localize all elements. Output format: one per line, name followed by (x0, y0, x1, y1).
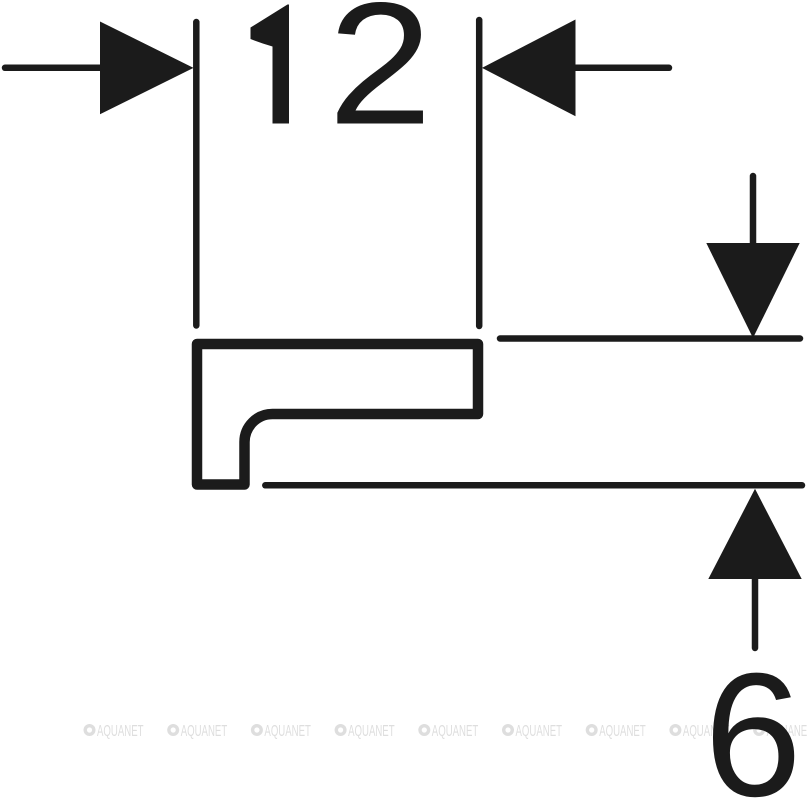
wire right arrow shaft (575, 65, 669, 72)
wire bottom surface line (265, 482, 802, 489)
arrowhead up (708, 489, 801, 579)
profile outline of sill section (197, 344, 478, 485)
wire up arrow shaft (752, 579, 759, 648)
svg-text:AQUANET: AQUANET (97, 723, 144, 740)
svg-text:6: 6 (704, 638, 802, 800)
wire top surface line (500, 335, 800, 342)
arrowhead down (706, 243, 799, 338)
dimension label: digit 1 (drawn, helvetica style) (251, 5, 290, 124)
arrowhead left (points right) (100, 22, 194, 115)
watermark row (84, 723, 807, 740)
wire left arrow shaft (5, 65, 101, 72)
arrowhead right (points left) (482, 20, 576, 117)
wire left extension line (193, 22, 200, 326)
wire down arrow shaft (750, 176, 757, 243)
svg-text:2: 2 (328, 0, 433, 161)
wire right extension line (476, 20, 483, 326)
